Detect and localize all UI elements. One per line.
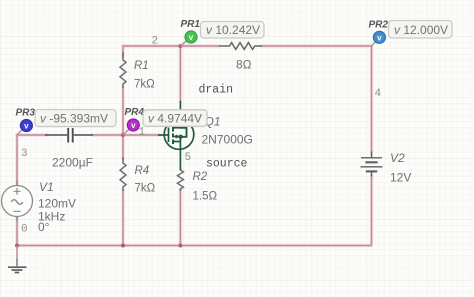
svg-text:7kΩ: 7kΩ <box>135 183 156 195</box>
wire R4 top lead <box>122 135 124 160</box>
svg-text:4: 4 <box>375 88 382 100</box>
svg-text:drain: drain <box>199 84 234 97</box>
junction R2 bottom <box>178 244 182 248</box>
svg-text:v: v <box>131 121 136 130</box>
svg-text:0°: 0° <box>38 220 50 234</box>
svg-text:v: v <box>189 33 194 42</box>
svg-text:8Ω: 8Ω <box>236 58 252 72</box>
wire R2 bottom lead <box>179 189 181 246</box>
probe PR1 value box <box>201 22 265 39</box>
probe PR3 head <box>20 120 32 132</box>
junction ground at V1 <box>15 244 19 248</box>
svg-text:1: 1 <box>139 127 146 139</box>
svg-text:PR1: PR1 <box>181 19 201 30</box>
wire left column lower (R1 bottom to gate row) <box>122 87 124 135</box>
capacitor C (2200uF) <box>45 128 93 143</box>
svg-text:v 10.242V: v 10.242V <box>206 23 260 37</box>
svg-text:v -95.393mV: v -95.393mV <box>40 111 108 125</box>
svg-text:V1: V1 <box>39 180 54 194</box>
wire R4 bottom lead <box>122 190 124 246</box>
wire: all rose net segments (soft underlay) <box>17 45 372 245</box>
probe PR2 head <box>373 31 385 43</box>
svg-text:V2: V2 <box>390 151 405 165</box>
probe PR4 value box <box>143 110 207 127</box>
probe PR1 head <box>185 31 197 43</box>
svg-text:2N7000G: 2N7000G <box>202 133 253 147</box>
svg-text:0: 0 <box>21 224 28 236</box>
junction node 2/drain <box>178 44 182 48</box>
wire right column (net 4) <box>371 46 373 152</box>
svg-text:2: 2 <box>152 36 159 48</box>
svg-text:v: v <box>24 122 29 131</box>
resistor R (8 ohm) <box>219 43 262 50</box>
wire V2 bottom column <box>371 176 373 246</box>
svg-text:3: 3 <box>21 148 28 160</box>
svg-text:5: 5 <box>185 152 192 164</box>
probe PR1 tail <box>180 37 191 46</box>
wire top rail left segment (net 2) <box>123 45 220 47</box>
svg-text:v: v <box>377 33 382 42</box>
AC source V1 <box>2 180 33 221</box>
probe PR3 value box <box>35 110 116 127</box>
wire drain column (net 2 down to Q1 drain) <box>179 46 181 101</box>
resistor R4 <box>120 157 126 191</box>
svg-text:PR3: PR3 <box>16 108 36 119</box>
svg-text:12V: 12V <box>390 171 411 185</box>
wire left column upper (R1 top lead net) <box>122 45 124 57</box>
resistor R1 <box>120 52 126 88</box>
probe PR2 value box <box>389 21 453 39</box>
wire bottom rail (net 0) <box>17 245 372 247</box>
wire gate row left (net 3) <box>17 134 48 136</box>
svg-text:120mV: 120mV <box>38 197 76 211</box>
svg-text:R4: R4 <box>135 165 150 177</box>
transistor Q1 2N7000G <box>158 101 194 170</box>
wire V1 top lead <box>16 134 18 185</box>
svg-text:1.5Ω: 1.5Ω <box>193 191 218 203</box>
svg-text:v 4.9744V: v 4.9744V <box>148 111 202 125</box>
svg-text:v 12.000V: v 12.000V <box>394 23 448 37</box>
svg-text:R2: R2 <box>193 171 208 183</box>
wire gate row middle (net 1) <box>92 134 158 136</box>
svg-text:PR2: PR2 <box>369 20 389 31</box>
battery V2 <box>361 152 383 177</box>
resistor R2 <box>177 168 183 191</box>
svg-text:source: source <box>206 158 248 171</box>
svg-text:PR4: PR4 <box>125 107 145 118</box>
svg-text:R1: R1 <box>134 60 149 72</box>
svg-text:7kΩ: 7kΩ <box>134 79 155 91</box>
probe PR4 head <box>127 119 139 131</box>
probe PR2 tail <box>372 37 380 46</box>
probe PR4 tail <box>123 125 133 135</box>
probe PR3 tail <box>17 126 26 136</box>
wire top rail right segment <box>261 45 372 47</box>
ground <box>8 246 27 273</box>
junction R4 bottom <box>121 244 125 248</box>
svg-text:2200µF: 2200µF <box>52 156 93 170</box>
junction gate node 1 <box>121 133 125 137</box>
wire V1 bottom lead <box>16 217 18 246</box>
